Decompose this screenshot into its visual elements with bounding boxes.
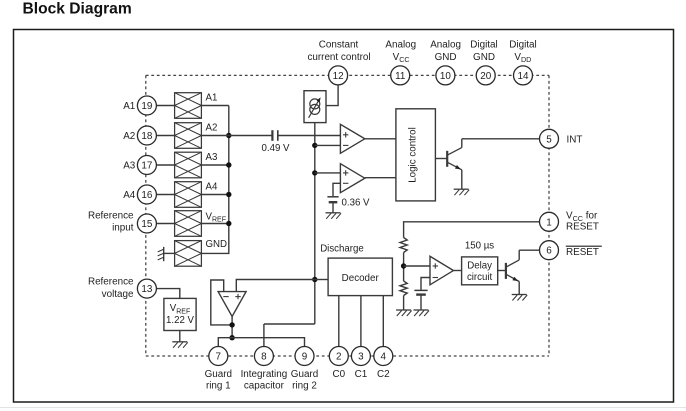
wire bus to comp1 minus [315, 144, 341, 146]
wire A3 to bus [201, 164, 228, 166]
wire bus to GND switch [201, 224, 228, 254]
ground (0.36V cap) [326, 213, 342, 219]
svg-text:C2: C2 [377, 369, 390, 380]
pin 15 [137, 214, 156, 233]
comparator U2 [340, 164, 364, 193]
wire bus corner to pin8 line [264, 323, 315, 325]
svg-text:Logic control: Logic control [408, 127, 419, 183]
svg-text:15: 15 [141, 219, 152, 230]
svg-text:A1: A1 [123, 101, 136, 112]
wire cap to ground [332, 202, 334, 213]
svg-text:12: 12 [333, 71, 344, 82]
wire cap to comparator1 + [278, 135, 341, 137]
wire op-amp plus riser [236, 280, 314, 292]
svg-text:circuit: circuit [467, 272, 493, 283]
svg-text:3: 3 [358, 352, 364, 363]
pin 10 [436, 66, 455, 85]
wire [153, 105, 175, 107]
svg-text:Reference: Reference [88, 211, 134, 222]
svg-text:8: 8 [261, 352, 267, 363]
svg-text:Digital: Digital [470, 40, 497, 51]
wire [153, 223, 175, 225]
svg-text:voltage: voltage [102, 289, 134, 300]
wire decoder to pin2 [338, 296, 340, 348]
junction A3/bus [226, 162, 231, 167]
resistor R2 [400, 281, 407, 296]
wire bus vertical [228, 106, 230, 224]
junction VREF/bus [226, 221, 231, 226]
wire chassis ground to GND switch [164, 252, 175, 254]
wire decoder to pin3 [360, 296, 362, 348]
junction comp2 plus [312, 170, 317, 175]
voltage source VREF 1.22V [164, 298, 196, 330]
svg-text:A2: A2 [206, 123, 218, 134]
svg-text:INT: INT [567, 135, 583, 146]
wire comp3 minus to cap [421, 278, 430, 290]
junction integrator plus / decoder [312, 277, 317, 282]
svg-text:GND: GND [435, 52, 457, 63]
svg-text:1: 1 [546, 217, 552, 228]
svg-text:ring 2: ring 2 [292, 380, 317, 391]
wire op-amp feedback loop [211, 280, 232, 325]
svg-text:GND: GND [473, 52, 495, 63]
capacitor (reset filter) [414, 290, 427, 294]
ground (R2) [396, 310, 412, 316]
transistor Q1 [447, 139, 462, 189]
svg-text:5: 5 [546, 134, 552, 145]
svg-text:Integrating: Integrating [241, 369, 288, 380]
pin 5 [540, 129, 559, 148]
svg-text:18: 18 [141, 131, 152, 142]
svg-text:150 µs: 150 µs [465, 241, 494, 252]
analog switch A2 [175, 123, 202, 149]
svg-text:0.36 V: 0.36 V [342, 197, 371, 208]
wire op-amp output [231, 317, 233, 338]
resistor R1 [400, 238, 407, 253]
wire Q1 collector to pin5 INT [462, 138, 543, 140]
analog switch GND [175, 241, 202, 267]
svg-text:9: 9 [302, 352, 308, 363]
wire A1 to bus [201, 105, 228, 107]
IC boundary dashed top [146, 74, 549, 76]
svg-text:14: 14 [518, 71, 529, 82]
svg-text:A4: A4 [206, 182, 218, 193]
ground (reset cap) [414, 310, 430, 316]
wire comp3 out to delay [453, 270, 461, 272]
wire pin13 to VREF source [153, 289, 180, 299]
pin 12 [329, 66, 348, 85]
svg-text:GND: GND [206, 239, 228, 250]
svg-text:RESET: RESET [566, 221, 599, 232]
svg-text:Decoder: Decoder [342, 273, 380, 284]
IC boundary dashed bottom [146, 355, 549, 357]
wire sense bus vertical [314, 123, 316, 324]
pin 3 [351, 347, 370, 366]
wire logic to Q1 base [435, 158, 446, 160]
analog switch A1 [175, 93, 202, 119]
svg-text:Guard: Guard [291, 369, 318, 380]
svg-text:A4: A4 [123, 190, 136, 201]
comparator U1 [340, 124, 364, 153]
svg-text:16: 16 [141, 190, 152, 201]
constant current source [304, 91, 326, 123]
svg-text:capacitor: capacitor [244, 380, 285, 391]
pin 14 [514, 66, 533, 85]
wire divider [403, 253, 405, 282]
svg-text:A3: A3 [123, 161, 136, 172]
svg-text:7: 7 [216, 352, 222, 363]
svg-text:Digital: Digital [509, 40, 536, 51]
junction comp1 minus [312, 143, 317, 148]
pin 16 [137, 185, 156, 204]
svg-text:Guard: Guard [205, 369, 232, 380]
wire [153, 194, 175, 196]
svg-text:Analog: Analog [385, 40, 416, 51]
IC boundary dashed right [548, 75, 550, 356]
junction output/guard line [229, 335, 234, 340]
analog switch A3 [175, 152, 202, 178]
svg-text:Reference: Reference [88, 277, 134, 288]
svg-text:17: 17 [141, 161, 152, 172]
ground (Q2 emitter) [512, 295, 528, 301]
pin 13 [137, 279, 156, 298]
svg-text:Analog: Analog [430, 40, 461, 51]
wire divider to comp3 plus [404, 265, 430, 267]
wire pin1 to divider [404, 222, 543, 238]
svg-text:current control: current control [307, 52, 370, 63]
junction A2/bus [226, 133, 231, 138]
wire VREF to bus [201, 223, 228, 225]
decoder block [328, 258, 392, 296]
wire decoder to pin4 [382, 296, 384, 348]
wire R2 to ground [403, 296, 405, 311]
wire A2 line [201, 135, 272, 137]
wire cap to ground [420, 295, 422, 310]
svg-text:A1: A1 [206, 93, 218, 104]
comparator U3 (reset) [430, 256, 453, 285]
pin 19 [137, 96, 156, 115]
ground (VREF source) [172, 342, 188, 348]
capacitor 0.49V [272, 130, 277, 141]
pin 11 [391, 66, 410, 85]
svg-text:input: input [112, 223, 134, 234]
wire [153, 135, 175, 137]
junction A4/bus [226, 192, 231, 197]
wire comp2 out [365, 177, 396, 179]
svg-text:Constant: Constant [319, 40, 359, 51]
analog switch A4 [175, 182, 202, 208]
ground (Q1 emitter) [454, 189, 470, 195]
pin 9 [295, 347, 314, 366]
pin 18 [137, 126, 156, 145]
svg-text:Discharge: Discharge [320, 243, 364, 254]
svg-text:19: 19 [141, 101, 152, 112]
analog switch VREF [175, 211, 202, 237]
chassis ground [158, 247, 164, 261]
pin 17 [137, 156, 156, 175]
transistor Q2 [506, 250, 519, 294]
logic control block [396, 109, 436, 201]
svg-text:13: 13 [141, 284, 152, 295]
wire pin8 to sense bus [263, 324, 265, 348]
wire VREF source to ground [179, 331, 181, 342]
svg-text:C1: C1 [355, 369, 368, 380]
op-amp buffer (guard ring driver) [218, 292, 246, 317]
svg-text:RESET: RESET [566, 247, 599, 258]
pin 6 [540, 241, 559, 260]
svg-text:A2: A2 [123, 131, 135, 142]
wire Q2 collector to pin6 [519, 249, 543, 251]
pin 2 [329, 347, 348, 366]
svg-text:11: 11 [395, 71, 406, 82]
svg-text:20: 20 [480, 71, 491, 82]
page rule (faint) [0, 407, 686, 409]
pin 8 [254, 347, 273, 366]
wire guard ring line [218, 338, 304, 348]
svg-text:Delay: Delay [467, 261, 492, 272]
svg-text:6: 6 [546, 246, 552, 257]
wire bus to comp2 plus [315, 172, 341, 174]
IC boundary dashed left [145, 75, 147, 356]
pin 20 [476, 66, 495, 85]
svg-text:C0: C0 [332, 369, 345, 380]
svg-text:A3: A3 [206, 152, 218, 163]
junction feedback/output [229, 322, 234, 327]
delay circuit block [462, 257, 498, 285]
wire A4 to bus [201, 194, 228, 196]
wire bus to decoder [315, 279, 328, 281]
wire comp2 minus to 0.36V cap [333, 183, 340, 196]
svg-text:10: 10 [440, 71, 451, 82]
svg-text:4: 4 [381, 352, 387, 363]
svg-text:1.22 V: 1.22 V [166, 315, 195, 326]
wire comp1 out [365, 138, 396, 140]
capacitor 0.36V [327, 197, 338, 202]
svg-text:Block Diagram: Block Diagram [23, 0, 132, 17]
pin 7 [209, 347, 228, 366]
pin 4 [374, 347, 393, 366]
wire delay to Q2 base [498, 270, 506, 272]
svg-text:2: 2 [336, 352, 342, 363]
wire pin12 to current source [326, 85, 338, 106]
svg-text:ring 1: ring 1 [206, 380, 231, 391]
junction divider [401, 263, 406, 268]
pin 1 [540, 212, 559, 231]
svg-text:0.49 V: 0.49 V [261, 143, 290, 154]
wire [153, 164, 175, 166]
